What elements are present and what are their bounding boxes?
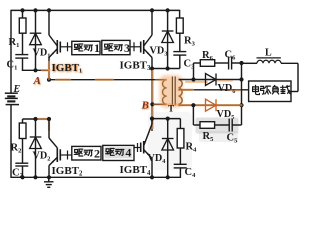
- wire secondary bottom row (VD5 row, orange): [179, 104, 242, 106]
- bottom rail node dots: [20, 175, 24, 179]
- node A dot: [47, 78, 51, 82]
- svg-text:IGBT3: IGBT3: [120, 59, 152, 72]
- drive box 驱动3: [102, 40, 130, 54]
- drive box 驱动1: [72, 41, 100, 54]
- svg-text:2: 2: [94, 146, 100, 160]
- resistor R4: [179, 119, 181, 129]
- node X dots: [239, 61, 243, 65]
- wire R6C6 branch vertical: [193, 63, 195, 80]
- IGBT Q2 (IGBT2): [48, 119, 50, 138]
- wire node A to primary (A rail): [49, 79, 167, 81]
- node B dot: [150, 102, 154, 106]
- orange marker on center tap: [179, 89, 193, 91]
- wire bottom rail: [11, 176, 181, 178]
- wire node B to primary bottom: [152, 103, 166, 105]
- ground symbol: [48, 177, 50, 181]
- node dots lower-left: [33, 117, 37, 121]
- svg-text:E: E: [13, 84, 21, 95]
- wire secondary center tap to load: [179, 89, 249, 91]
- orange marker lower-left connector: [36, 118, 50, 120]
- svg-text:IGBT1: IGBT1: [52, 62, 83, 75]
- wire left upper connector: [22, 69, 49, 71]
- svg-text:1: 1: [94, 41, 100, 55]
- IGBT Q3 (IGBT3): [151, 10, 153, 35]
- svg-text:B: B: [141, 100, 149, 112]
- orange marker over transformer: [0, 0, 1, 1]
- diode VD6: [206, 74, 217, 86]
- node dots right connector: [150, 66, 154, 70]
- diode VD1: [35, 10, 37, 70]
- gray smudge lower-right: [148, 112, 192, 170]
- capacitor C6: [228, 57, 230, 70]
- orange marker on A rail: [56, 79, 70, 81]
- wire lower-left connector: [23, 118, 50, 120]
- node dot VD1-connector: [33, 68, 37, 72]
- capacitor C3: [173, 51, 186, 53]
- capacitor C4: [174, 163, 187, 165]
- wire secondary top row (VD6 row): [179, 79, 242, 81]
- battery E: [5, 92, 18, 94]
- svg-text:IGBT4: IGBT4: [120, 164, 152, 177]
- wire left rail (E+ feed): [10, 10, 12, 93]
- inductor L: [242, 62, 258, 64]
- node dot secondary-top: [191, 77, 195, 81]
- svg-text:IGBT2: IGBT2: [52, 165, 84, 178]
- drive box 驱动2: [72, 146, 101, 160]
- wire IGBT3-emitter to B to IGBT4: [151, 69, 153, 132]
- wire L to load right side: [297, 63, 299, 91]
- gray highlight R5C5: [196, 118, 239, 134]
- resistor R5: [200, 122, 215, 129]
- wire left rail lower: [10, 105, 12, 178]
- top rail node dots: [20, 8, 24, 12]
- capacitor C1: [15, 54, 28, 56]
- transformer T secondary winding: [179, 80, 183, 105]
- drive box 驱动4 (gray shadow): [103, 145, 134, 160]
- resistor R3: [176, 18, 183, 33]
- diode VD4: [167, 119, 169, 178]
- capacitor C2: [15, 162, 28, 164]
- transformer T core: [171, 77, 173, 106]
- wire top +E rail: [11, 9, 180, 11]
- transformer T primary winding: [163, 80, 167, 105]
- wire R5C5 branch: [192, 105, 194, 125]
- diode VD5 (orange): [206, 99, 217, 111]
- node dots lower-right: [150, 117, 154, 121]
- svg-text:3: 3: [124, 41, 130, 55]
- diode VD2: [35, 119, 37, 177]
- resistor R1: [22, 10, 24, 18]
- IGBT Q4 (IGBT4): [151, 119, 153, 124]
- svg-text:L: L: [265, 48, 272, 59]
- wire right upper connector: [152, 68, 180, 70]
- diode VD3: [167, 10, 169, 69]
- resistor R2: [22, 119, 24, 123]
- circuit schematic: full-bridge IGBT inverter arc-welding supply: [0, 0, 310, 198]
- wire lower-right connector: [152, 118, 180, 120]
- capacitor C5: [228, 119, 230, 132]
- orange marker under VD6 row: [186, 81, 207, 83]
- wire node X vertical: [241, 63, 243, 125]
- label 电弧负载: [253, 85, 260, 94]
- resistor R6: [194, 62, 201, 64]
- IGBT Q1 (IGBT1): [48, 10, 50, 35]
- svg-text:A: A: [33, 75, 41, 87]
- svg-text:4: 4: [125, 146, 131, 160]
- node dot VD5 left: [191, 103, 195, 107]
- load box 电弧负载: [249, 81, 291, 102]
- orange marker over B leg: [151, 71, 154, 128]
